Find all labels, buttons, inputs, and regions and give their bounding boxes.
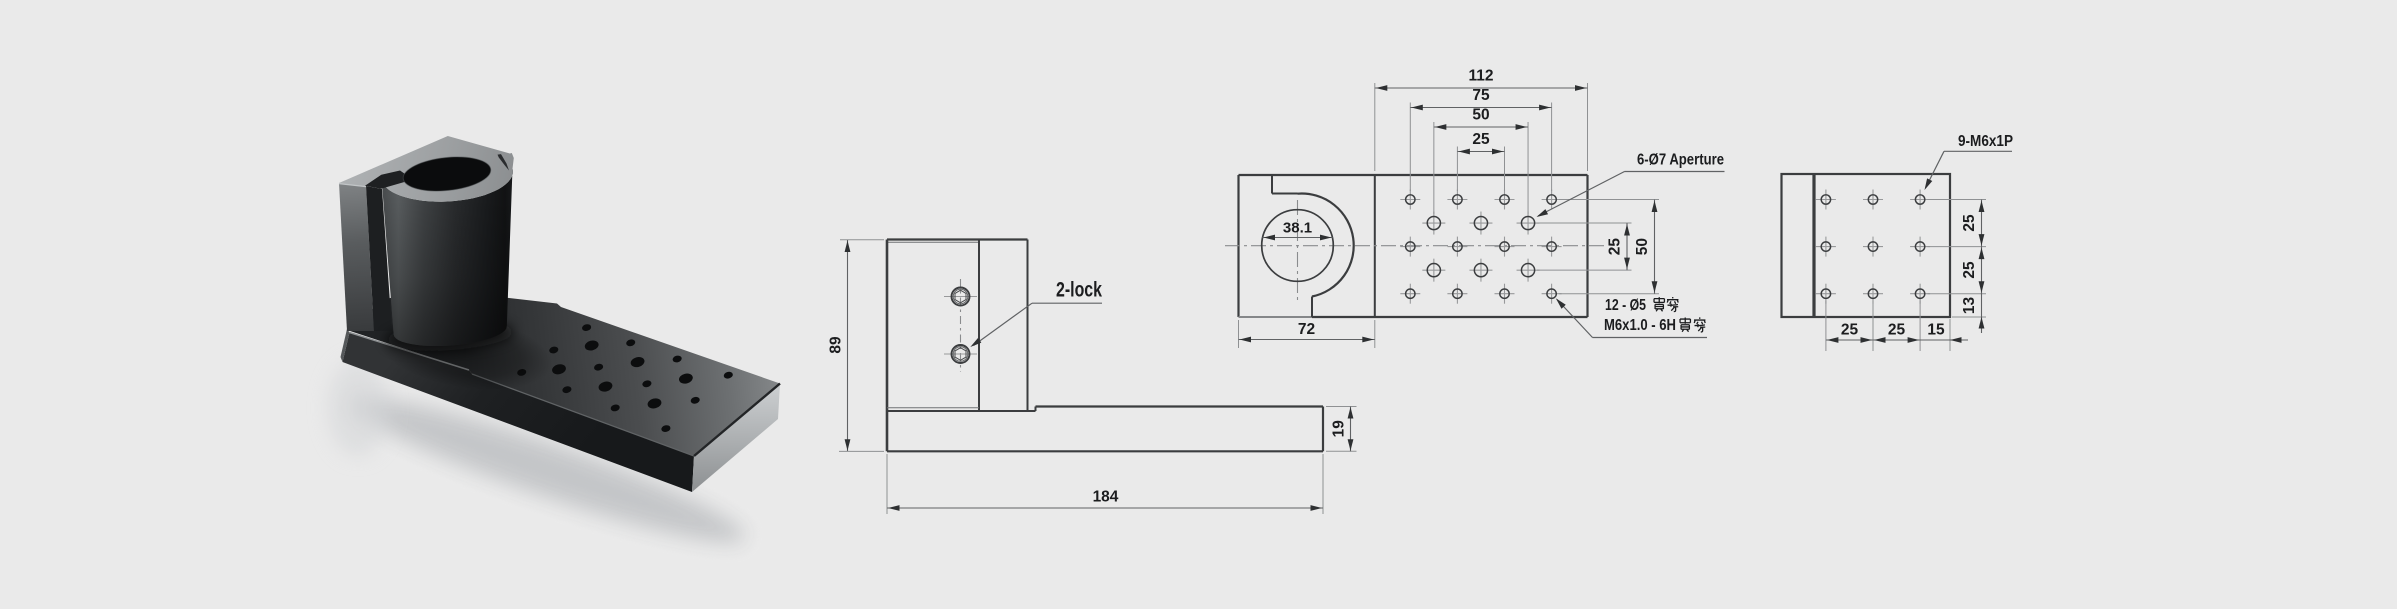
slot strip through rim	[365, 171, 413, 189]
svg-text:25: 25	[1961, 261, 1978, 279]
svg-text:M6x1.0 - 6H: M6x1.0 - 6H	[1604, 317, 1676, 334]
top view outline	[1239, 174, 1588, 176]
dim 25 right	[1537, 222, 1632, 224]
svg-text:25: 25	[1841, 322, 1859, 339]
dim 38.1	[1263, 237, 1333, 239]
dims 25/25/15 bottom	[1825, 301, 1827, 352]
cylinder shadow on plate	[372, 303, 557, 402]
9 holes	[1816, 199, 1836, 201]
cylinder body	[381, 169, 513, 346]
side view outline	[887, 238, 1028, 240]
bore circle	[1262, 210, 1334, 282]
dim 25	[1456, 147, 1458, 192]
dim 50 right	[1559, 199, 1659, 201]
boss notch and arc	[1271, 175, 1273, 194]
dim 184	[886, 454, 888, 514]
svg-text:50: 50	[1634, 238, 1651, 255]
notch sliver	[498, 154, 510, 170]
svg-text:89: 89	[828, 336, 845, 354]
dim 75	[1409, 103, 1411, 192]
right view outline	[1782, 174, 1951, 317]
dim 72	[1238, 320, 1240, 348]
centerlines	[1225, 245, 1605, 247]
slot groove	[366, 186, 392, 331]
svg-text:6-Ø7 Aperture: 6-Ø7 Aperture	[1637, 151, 1724, 168]
svg-text:13: 13	[1961, 297, 1978, 315]
dim 89	[840, 239, 884, 241]
12 small holes	[1400, 199, 1420, 201]
dim 50	[1433, 122, 1435, 214]
block left slab	[339, 183, 374, 331]
plate top face	[347, 291, 780, 456]
dim 112	[1374, 83, 1376, 171]
hex bolts	[960, 279, 962, 372]
svg-text:112: 112	[1468, 68, 1493, 85]
svg-text:19: 19	[1331, 420, 1348, 438]
bore	[402, 153, 493, 195]
svg-text:25: 25	[1961, 214, 1978, 232]
6 big holes	[1422, 222, 1445, 224]
svg-text:75: 75	[1472, 87, 1490, 104]
svg-text:25: 25	[1472, 131, 1490, 148]
plate right end face	[692, 384, 780, 493]
ground shadow	[343, 378, 753, 563]
svg-text:9-M6x1P: 9-M6x1P	[1958, 133, 2013, 150]
plate left end face	[341, 329, 350, 362]
dim 19	[1326, 406, 1357, 408]
svg-text:15: 15	[1927, 322, 1945, 339]
svg-text:50: 50	[1472, 107, 1489, 124]
plate front face	[343, 333, 695, 493]
svg-text:2-lock: 2-lock	[1056, 279, 1102, 302]
svg-text:184: 184	[1093, 489, 1119, 506]
plate holes	[581, 323, 592, 332]
svg-text:12 - Ø5: 12 - Ø5	[1605, 297, 1646, 314]
svg-text:25: 25	[1607, 238, 1624, 256]
svg-text:38.1: 38.1	[1283, 219, 1312, 236]
dims 25/25/13	[1928, 199, 1987, 201]
svg-text:72: 72	[1298, 321, 1315, 338]
svg-text:25: 25	[1888, 322, 1906, 339]
block top face	[339, 136, 514, 202]
